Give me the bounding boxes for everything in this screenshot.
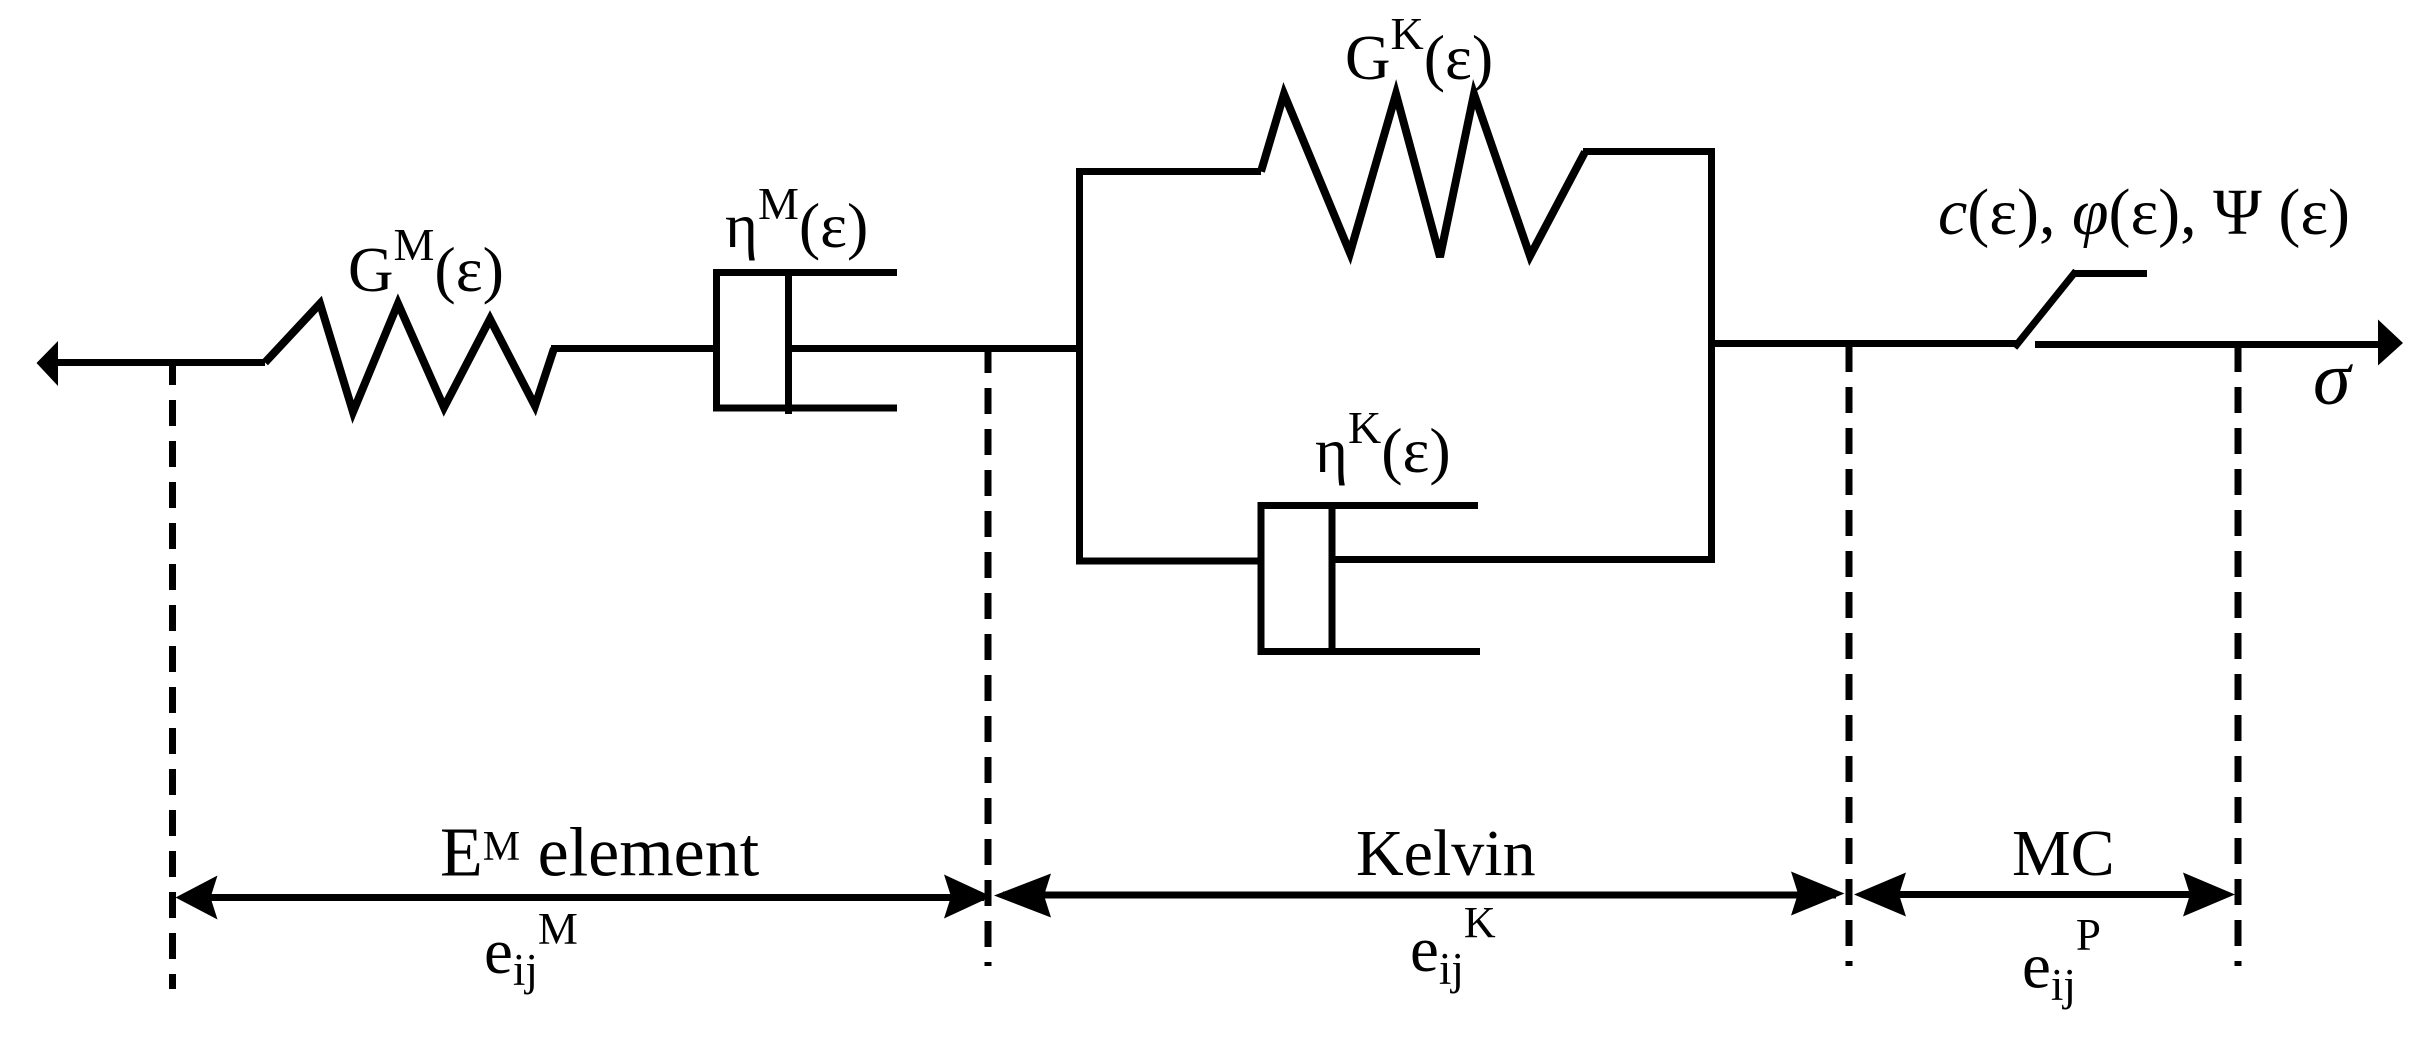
node dashed line 1 (left boundary): [169, 359, 176, 989]
dimension line Kelvin span: [1003, 892, 1836, 899]
dimension arrowhead E^M left: [176, 876, 218, 920]
wire: dashpot to Kelvin box: [789, 345, 1081, 352]
svg-text:σ: σ: [2313, 337, 2353, 421]
dimension arrowhead Kelvin left: [994, 874, 1051, 918]
dimension arrowhead MC right: [2183, 873, 2235, 917]
dimension arrowhead Kelvin right: [1791, 872, 1845, 916]
left arrowhead: [37, 341, 59, 386]
node dashed line 3 (Kelvin / MC boundary): [1846, 346, 1853, 966]
Kelvin box bottom-left wire: [1076, 558, 1261, 565]
node dashed line 2 (E^M / Kelvin boundary): [985, 347, 992, 966]
dimension arrowhead E^M right: [944, 875, 992, 919]
Kelvin box left edge: [1076, 168, 1083, 561]
wire: left lead: [54, 359, 265, 366]
svg-text:Kelvin: Kelvin: [1356, 817, 1536, 890]
Kelvin box top-left wire: [1076, 168, 1261, 175]
wire: Kelvin box to MC slider: [1712, 340, 2018, 347]
Kelvin box top-right wire: [1583, 148, 1715, 155]
svg-text:MC: MC: [2012, 817, 2115, 890]
dimension line MC span: [1862, 891, 2226, 898]
dimension arrowhead MC left: [1854, 873, 1906, 917]
MC slider blade: [2015, 271, 2077, 348]
right arrowhead: [2378, 320, 2403, 366]
node dashed line 4 (right boundary): [2235, 346, 2242, 966]
spring G^K: [1261, 94, 1585, 257]
MC slider contact bar: [2072, 270, 2147, 277]
dashpot η^M cylinder: [713, 269, 897, 412]
dashpot η^K piston: [1329, 502, 1336, 655]
wire: MC slider to σ arrow: [2035, 341, 2382, 348]
dashpot η^M piston: [785, 269, 792, 414]
wire: spring G^M to dashpot: [551, 345, 717, 352]
dimension line E^M span: [186, 894, 984, 901]
svg-text:c(ε), φ(ε), Ψ (ε): c(ε), φ(ε), Ψ (ε): [1938, 176, 2350, 249]
spring G^M: [265, 304, 554, 413]
Kelvin box right edge: [1708, 148, 1715, 563]
dashpot η^K cylinder: [1258, 502, 1481, 655]
Kelvin box bottom-right wire: [1332, 556, 1715, 563]
